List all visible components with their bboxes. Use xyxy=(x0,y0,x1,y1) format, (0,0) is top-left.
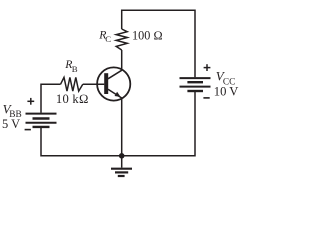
battery VBB plate long 1 xyxy=(26,113,57,115)
resistor RB xyxy=(61,77,83,91)
wire RB to base xyxy=(83,83,105,85)
transistor Q1 emitter arrow xyxy=(115,92,121,97)
battery VCC plate long 2 xyxy=(180,86,211,88)
wire top rail: RC top to VCC+ xyxy=(122,10,195,77)
svg-text:100 Ω: 100 Ω xyxy=(132,29,163,43)
battery VBB xyxy=(26,114,57,127)
transistor Q1 xyxy=(97,67,130,100)
wire VBB bottom through bottom rail to VCC- xyxy=(41,92,195,156)
wire RC bottom to collector xyxy=(121,50,123,70)
transistor Q1 body circle xyxy=(97,67,130,100)
label - VCC xyxy=(203,97,209,99)
transistor Q1 collector lead xyxy=(108,70,122,79)
svg-text:B: B xyxy=(72,64,78,74)
battery VCC plate short 1 xyxy=(187,81,203,83)
battery VBB plate short 2 xyxy=(33,126,50,128)
label + VCC xyxy=(204,64,211,71)
wire emitter down to bottom rail xyxy=(121,98,123,156)
label + VBB xyxy=(27,98,34,105)
wire VBB top to RB xyxy=(41,84,61,113)
label - VBB xyxy=(25,129,31,131)
resistor RC xyxy=(116,29,127,50)
svg-text:5 V: 5 V xyxy=(2,117,20,131)
svg-text:10 kΩ: 10 kΩ xyxy=(56,92,89,106)
svg-text:C: C xyxy=(105,34,111,44)
battery VCC plate long 1 xyxy=(180,77,211,79)
junction node emitter/ground xyxy=(119,153,125,159)
battery VBB plate long 2 xyxy=(26,122,57,124)
battery VBB plate short 1 xyxy=(33,117,50,119)
ground xyxy=(111,156,132,176)
battery VCC plate short 2 xyxy=(187,90,203,92)
transistor Q1 emitter lead xyxy=(108,89,122,98)
transistor Q1 base bar xyxy=(104,73,108,94)
svg-text:10 V: 10 V xyxy=(214,84,239,98)
battery VCC xyxy=(180,78,211,91)
